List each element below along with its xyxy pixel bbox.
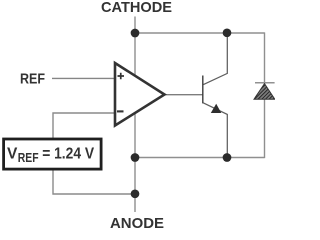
- transistor Q1 collector: [203, 33, 227, 85]
- transistor Q1 base bar: [202, 76, 204, 104]
- wire cathode stub: [134, 17, 136, 34]
- wire bottom rail: [135, 157, 265, 159]
- Vref box: [4, 139, 102, 169]
- transistor Q1 emitter arrow: [211, 104, 222, 113]
- wire right rail: [264, 32, 266, 158]
- wire REF input: [52, 77, 115, 79]
- node junction ref-anode: [131, 189, 140, 198]
- wire anode vertical: [134, 111, 136, 212]
- wire inverting input to Vref box top: [53, 113, 115, 139]
- svg-text:ANODE: ANODE: [110, 215, 164, 230]
- svg-text:= 1.24 V: = 1.24 V: [42, 146, 94, 163]
- diode D1 cathode bar: [255, 82, 275, 84]
- node junction emitter: [223, 153, 232, 162]
- wire Vref box bottom to anode: [53, 170, 135, 195]
- svg-text:REF: REF: [20, 70, 45, 87]
- op-amp minus sign: [117, 110, 124, 112]
- wire top rail: [135, 32, 265, 34]
- node junction collector: [223, 28, 232, 37]
- op-amp U1: [115, 63, 165, 126]
- op-amp plus sign: [118, 73, 125, 80]
- svg-text:REF: REF: [18, 150, 39, 165]
- svg-text:V: V: [7, 146, 18, 163]
- wire op-amp top supply: [134, 33, 136, 77]
- node junction cathode: [131, 29, 140, 38]
- wire op-amp output to base: [165, 94, 204, 96]
- diode D1 triangle: [254, 84, 275, 100]
- svg-text:CATHODE: CATHODE: [101, 0, 172, 16]
- node junction anode-left: [131, 153, 140, 162]
- transistor Q1 emitter: [203, 103, 227, 158]
